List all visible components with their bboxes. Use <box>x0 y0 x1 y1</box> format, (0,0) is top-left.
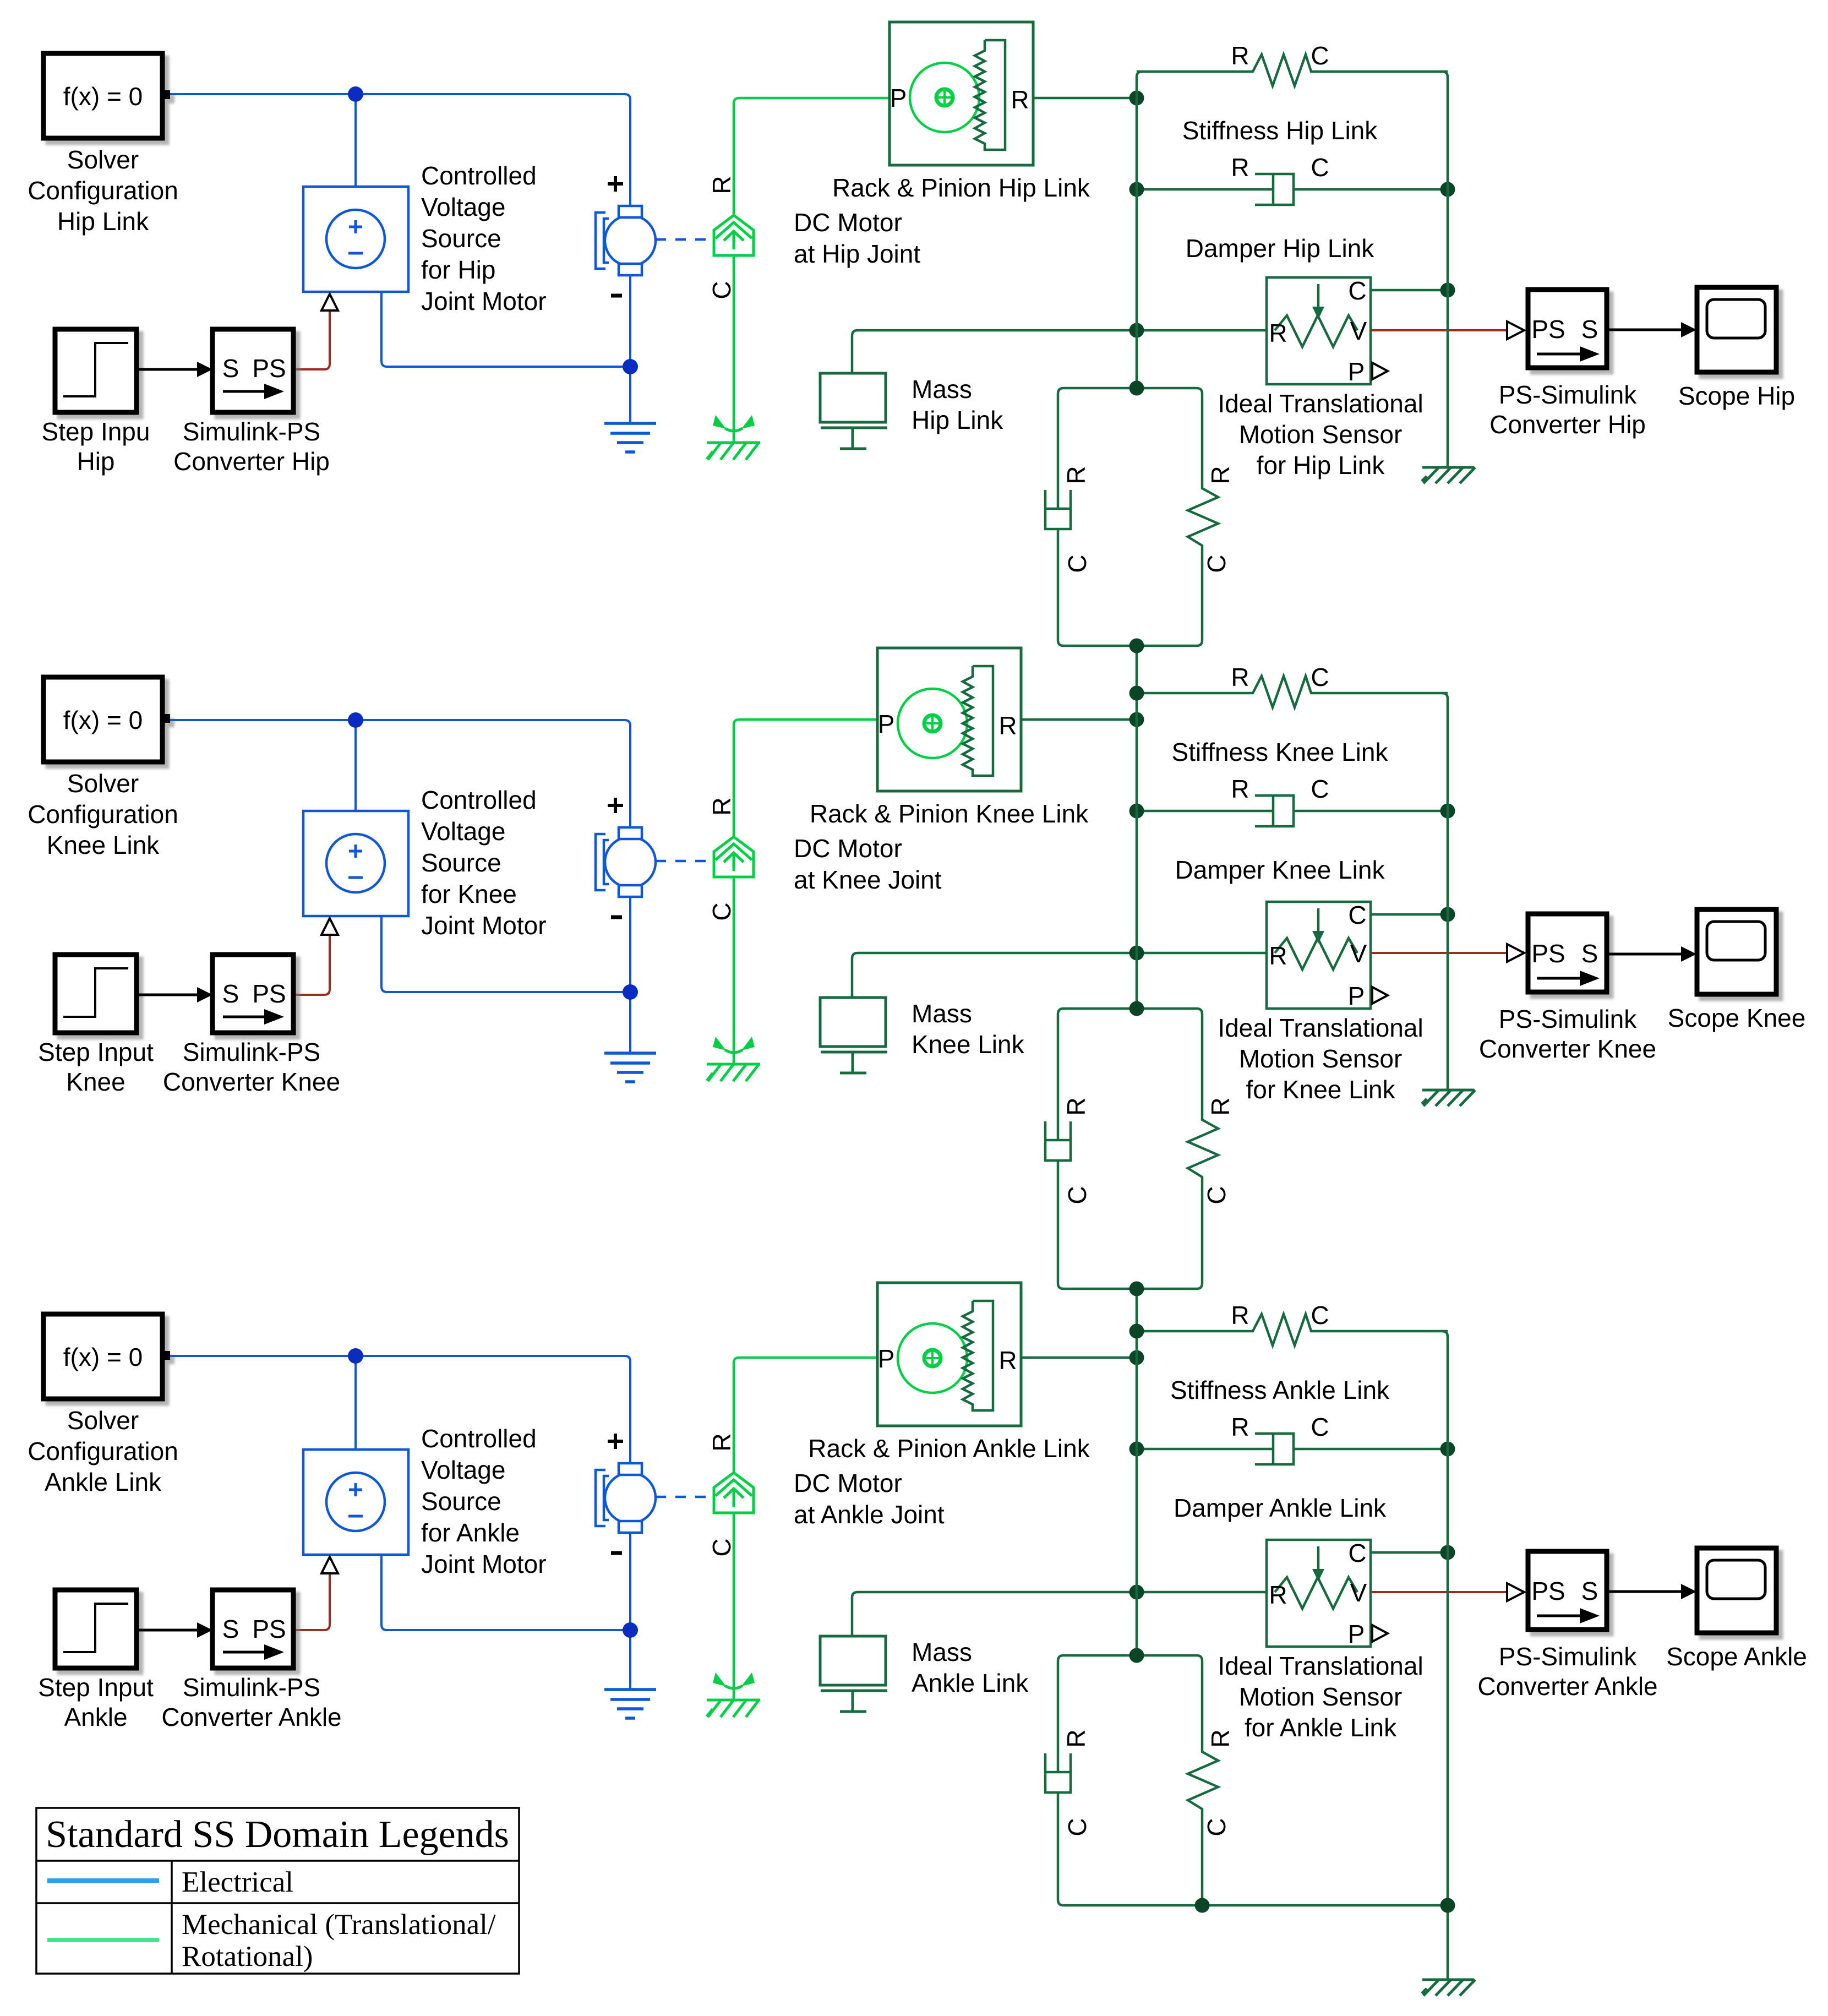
wire: wheel R up to rack pinion P (Ankle) <box>734 1358 877 1472</box>
wire: PS control signal (dark red) (Ankle) <box>293 1574 330 1630</box>
svg-text:C: C <box>1311 153 1329 182</box>
wire: step to converter (signal arrow) (Ankle) <box>137 1629 198 1632</box>
label Simulink-PS Converter (Ankle) <box>161 1673 341 1731</box>
wire: hip right bus <box>1442 72 1448 467</box>
svg-text:Ideal Translational: Ideal Translational <box>1218 1652 1423 1680</box>
rack &amp; pinion block (Hip) <box>890 22 1033 165</box>
svg-text:Stiffness Ankle Link: Stiffness Ankle Link <box>1170 1376 1390 1404</box>
coupler damper branch (knee-ankle) <box>1045 1009 1137 1289</box>
control port triangle of voltage source (Hip) <box>321 294 338 310</box>
label motor + terminal (Hip) <box>608 176 623 192</box>
svg-text:Configuration: Configuration <box>28 800 178 829</box>
svg-text:f(x) = 0: f(x) = 0 <box>63 1343 143 1371</box>
svg-text:C: C <box>1063 554 1092 573</box>
label Rack &amp; Pinion (Knee) <box>794 799 1089 894</box>
svg-text:C: C <box>1348 276 1366 305</box>
label motor + terminal (Ankle) <box>608 1434 623 1449</box>
svg-text:Configuration: Configuration <box>28 176 178 205</box>
damper (Ankle) <box>1137 1434 1448 1464</box>
node: damper on right bus (Ankle) <box>1440 1442 1455 1457</box>
node: sensor C on right bus (Hip) <box>1440 283 1455 298</box>
svg-text:Converter Ankle: Converter Ankle <box>1477 1672 1657 1701</box>
svg-text:for Hip: for Hip <box>421 255 495 284</box>
svg-text:Simulink-PS: Simulink-PS <box>183 1673 321 1702</box>
svg-text:R: R <box>707 176 736 194</box>
electrical ground (Hip) <box>604 423 656 452</box>
wire: source minus to bottom rail (Knee) <box>381 916 630 992</box>
svg-text:at Hip Joint: at Hip Joint <box>794 239 920 268</box>
dashed mechanical link motor to wheel (Knee) <box>656 860 711 863</box>
svg-text:PS: PS <box>1531 315 1565 344</box>
node: damper on bus (Hip) <box>1129 182 1144 197</box>
svg-text:Mechanical (Translational/: Mechanical (Translational/ <box>182 1909 496 1941</box>
svg-text:Electrical: Electrical <box>182 1866 293 1898</box>
solver configuration block f(x)=0 (Ankle) <box>43 1314 170 1399</box>
svg-text:Hip Link: Hip Link <box>912 406 1003 434</box>
svg-text:Ideal Translational: Ideal Translational <box>1218 389 1423 418</box>
mechanical translational ground (ankle bottom) <box>1422 1980 1475 1996</box>
wire: solver/source/motor top rail (Knee) <box>170 720 630 827</box>
legend table Standard SS Domain Legends <box>36 1808 519 1974</box>
svg-text:PS-Simulink: PS-Simulink <box>1499 1005 1638 1033</box>
svg-text:Converter Hip: Converter Hip <box>173 447 330 476</box>
electrical ground (Ankle) <box>604 1690 656 1718</box>
svg-text:Controlled: Controlled <box>421 1424 537 1453</box>
svg-text:R: R <box>1062 1729 1090 1747</box>
coupler damper branch (ankle-ground) <box>1045 1655 1448 1905</box>
label Step Input (Ankle) <box>38 1673 154 1731</box>
wire: wheel R up to rack pinion P (Knee) <box>734 720 877 836</box>
control port triangle of voltage source (Ankle) <box>321 1557 338 1573</box>
svg-text:Mass: Mass <box>912 999 972 1028</box>
svg-text:C: C <box>1063 1186 1092 1204</box>
svg-text:Solver: Solver <box>67 769 139 798</box>
svg-text:for Ankle Link: for Ankle Link <box>1245 1713 1397 1742</box>
mechanical rotational reference ground (Hip) <box>707 415 760 460</box>
stiffness spring (Hip) <box>1137 55 1448 86</box>
legend mechanical line <box>47 1938 159 1942</box>
svg-text:Solver: Solver <box>67 145 139 174</box>
svg-text:Controlled: Controlled <box>421 786 537 814</box>
svg-text:C: C <box>1063 1818 1092 1836</box>
svg-text:R: R <box>707 797 736 815</box>
node: ankle bottom spring junction <box>1195 1898 1210 1913</box>
wire: mass to sensor horizontal (Hip) <box>852 330 1267 373</box>
svg-text:R: R <box>1206 466 1235 484</box>
svg-text:Solver: Solver <box>67 1406 139 1435</box>
coupler damper branch (hip-knee) <box>1045 388 1137 646</box>
ideal translational motion sensor block (Knee) <box>1267 901 1388 1010</box>
step input block (Knee) <box>55 955 137 1033</box>
label Simulink-PS Converter (Hip) <box>173 417 330 476</box>
electrical ground (Knee) <box>604 1053 656 1082</box>
label Controlled Voltage Source (Knee) <box>421 786 547 940</box>
input port triangle of PS-Simulink (Knee) <box>1507 944 1524 962</box>
coupler spring branch (knee-ankle) <box>1137 1009 1218 1289</box>
svg-text:P: P <box>1348 357 1365 386</box>
svg-text:R: R <box>1231 663 1249 691</box>
svg-text:C: C <box>1311 1301 1329 1330</box>
svg-text:C: C <box>1202 554 1231 573</box>
svg-text:S: S <box>222 354 239 383</box>
svg-text:Voltage: Voltage <box>421 817 505 846</box>
svg-text:S: S <box>1581 1577 1598 1605</box>
svg-text:Voltage: Voltage <box>421 193 505 221</box>
node: damper on bus (Ankle) <box>1129 1442 1144 1457</box>
node: bottom rail junction (Knee) <box>623 984 638 1000</box>
svg-text:R: R <box>707 1433 736 1451</box>
svg-text:R: R <box>1011 85 1029 114</box>
wire: source minus to bottom rail (Hip) <box>381 292 630 367</box>
wire: step to converter (signal arrow) (Hip) <box>137 368 198 371</box>
label Solver Configuration Hip Link <box>28 145 178 236</box>
svg-text:Motion Sensor: Motion Sensor <box>1239 1682 1403 1711</box>
legend electrical line <box>47 1878 159 1883</box>
mechanical rotational reference ground (Knee) <box>707 1037 760 1081</box>
svg-text:R: R <box>1269 1581 1287 1609</box>
svg-text:R: R <box>1231 775 1249 803</box>
node: bottom rail junction (Ankle) <box>623 1622 638 1638</box>
svg-text:C: C <box>1311 663 1329 691</box>
svg-text:R: R <box>1231 1413 1249 1441</box>
svg-text:Motion Sensor: Motion Sensor <box>1239 420 1403 449</box>
svg-text:R: R <box>1062 466 1090 484</box>
stiffness spring (Ankle) <box>1137 1314 1448 1345</box>
label Ideal Translational Motion Sensor (Knee) <box>1218 1014 1423 1104</box>
node: sensor C on right bus (Knee) <box>1440 907 1455 922</box>
node: damper on right bus (Hip) <box>1440 182 1455 197</box>
wire: branch down to voltage source + (Knee) <box>354 720 357 811</box>
svg-text:P: P <box>1348 982 1365 1010</box>
svg-text:P: P <box>878 710 895 738</box>
node: sensor C on right bus (Ankle) <box>1440 1545 1455 1560</box>
damper (Knee) <box>1137 795 1448 826</box>
svg-text:Converter Hip: Converter Hip <box>1489 410 1646 439</box>
wire: PS-Simulink to scope (signal arrow) (Hip) <box>1607 329 1682 331</box>
svg-text:at Ankle Joint: at Ankle Joint <box>794 1500 945 1529</box>
svg-text:V: V <box>1350 317 1367 345</box>
svg-text:R: R <box>1231 1301 1249 1330</box>
label motor - terminal (Ankle) <box>611 1551 622 1555</box>
svg-text:C: C <box>1202 1186 1231 1204</box>
wire: sensor C to right bus (Knee) <box>1371 913 1448 916</box>
svg-text:Damper Knee Link: Damper Knee Link <box>1175 856 1385 884</box>
node: top rail junction (Ankle) <box>348 1348 363 1364</box>
wire: branch down to voltage source + (Ankle) <box>354 1356 357 1450</box>
svg-text:Joint Motor: Joint Motor <box>421 911 547 940</box>
wire: wheel C down to rotational reference (Hip) <box>733 255 735 443</box>
svg-text:Simulink-PS: Simulink-PS <box>183 417 321 446</box>
svg-text:Step Input: Step Input <box>38 1038 154 1066</box>
mass block (Knee) <box>820 998 887 1073</box>
damper (Hip) <box>1137 174 1448 205</box>
wire: hip main bus <box>1137 72 1142 388</box>
input port triangle of PS-Simulink (Ankle) <box>1507 1583 1524 1601</box>
node: R port on bus (Ankle) <box>1129 1350 1144 1365</box>
scope block (Hip) <box>1697 287 1776 372</box>
svg-text:R: R <box>1206 1729 1235 1747</box>
label motor - terminal (Hip) <box>611 294 622 298</box>
svg-text:f(x) = 0: f(x) = 0 <box>63 706 143 734</box>
PS-Simulink converter block (Ankle) <box>1528 1551 1607 1630</box>
svg-text:S: S <box>1581 939 1598 968</box>
mass block (Hip) <box>820 373 887 449</box>
svg-text:Converter Knee: Converter Knee <box>163 1067 340 1096</box>
simulink-PS converter block (Hip) <box>212 329 293 412</box>
svg-text:V: V <box>1350 1578 1367 1607</box>
PS-Simulink converter block (Knee) <box>1528 914 1607 992</box>
svg-text:PS-Simulink: PS-Simulink <box>1499 380 1638 409</box>
wire: motor minus down to ground (Knee) <box>629 896 631 1053</box>
label Mass (Hip) <box>912 375 1003 434</box>
wire: PS-Simulink to scope (signal arrow) (Knee) <box>1607 953 1682 956</box>
node: ankle stiffness on bus <box>1129 1324 1144 1339</box>
svg-text:Rotational): Rotational) <box>182 1941 313 1973</box>
wire: rack R port to main node (Ankle) <box>1021 1356 1137 1359</box>
svg-text:R: R <box>1269 319 1287 347</box>
wire: sensor V signal (dark red) to PS-Simulink (Hip) <box>1371 329 1507 331</box>
svg-text:V: V <box>1350 939 1367 968</box>
svg-text:Damper Hip Link: Damper Hip Link <box>1186 234 1375 263</box>
rack &amp; pinion block (Ankle) <box>877 1283 1021 1426</box>
DC motor (Ankle) <box>596 1463 656 1533</box>
svg-text:Ideal Translational: Ideal Translational <box>1218 1014 1423 1042</box>
controlled voltage source block (Hip) <box>303 187 408 292</box>
svg-text:C: C <box>707 1538 736 1556</box>
mechanical rotational reference ground (Ankle) <box>707 1672 760 1717</box>
svg-text:for Ankle: for Ankle <box>421 1518 520 1547</box>
svg-text:C: C <box>1202 1818 1231 1836</box>
svg-text:P: P <box>878 1344 895 1373</box>
svg-text:Rack & Pinion Hip Link: Rack & Pinion Hip Link <box>832 173 1090 202</box>
svg-text:C: C <box>1311 1413 1329 1441</box>
label Ideal Translational Motion Sensor (Ankle) <box>1218 1652 1423 1742</box>
DC motor (Hip) <box>596 206 656 275</box>
step input block (Hip) <box>55 329 137 412</box>
svg-text:PS: PS <box>1531 939 1565 968</box>
svg-text:Mass: Mass <box>912 1638 972 1666</box>
node: mass/sensor wire on bus (Knee) <box>1129 946 1144 961</box>
node: coupler top (hip-knee) <box>1129 381 1144 396</box>
svg-text:for Knee Link: for Knee Link <box>1246 1075 1395 1104</box>
scope block (Knee) <box>1697 909 1776 994</box>
svg-text:for Hip Link: for Hip Link <box>1257 451 1385 480</box>
wire: wheel C down to rotational reference (Ankle) <box>733 1513 735 1700</box>
wire: sensor V signal (dark red) to PS-Simulink (Ankle) <box>1371 1591 1507 1593</box>
node: mass/sensor wire on bus (Hip) <box>1129 323 1144 338</box>
node: R port on bus (Hip) <box>1129 91 1144 106</box>
node: knee stiffness on bus <box>1129 686 1144 701</box>
label Ideal Translational Motion Sensor (Hip) <box>1218 389 1423 480</box>
svg-text:P: P <box>1348 1620 1365 1648</box>
wire: ankle right bus <box>1442 1331 1448 1980</box>
node: top rail junction (Hip) <box>348 86 363 102</box>
svg-text:R: R <box>998 711 1017 740</box>
svg-text:PS: PS <box>1531 1577 1565 1605</box>
svg-text:R: R <box>998 1346 1017 1375</box>
solver configuration block f(x)=0 (Hip) <box>43 53 170 138</box>
simulink-PS converter block (Knee) <box>212 955 293 1033</box>
label PS-Simulink Converter (Ankle) <box>1477 1642 1657 1701</box>
label Mass (Ankle) <box>912 1638 1029 1697</box>
svg-text:S: S <box>1581 315 1598 344</box>
label motor - terminal (Knee) <box>611 916 622 919</box>
node: ankle bottom right bus junction <box>1440 1898 1455 1913</box>
svg-text:Joint Motor: Joint Motor <box>421 287 547 315</box>
mechanical translational ground (knee right bus) <box>1422 1090 1475 1106</box>
svg-text:C: C <box>1348 1539 1366 1567</box>
svg-text:Converter Ankle: Converter Ankle <box>161 1703 341 1731</box>
svg-text:PS-Simulink: PS-Simulink <box>1499 1642 1638 1671</box>
svg-text:Hip: Hip <box>77 447 114 476</box>
svg-text:for Knee: for Knee <box>421 880 517 908</box>
label Step Input (Hip) <box>42 417 150 476</box>
svg-text:R: R <box>1062 1097 1090 1115</box>
svg-text:Knee: Knee <box>66 1067 125 1096</box>
label motor + terminal (Knee) <box>608 798 623 813</box>
svg-text:Knee Link: Knee Link <box>47 831 160 859</box>
wire: knee right bus <box>1442 693 1448 1090</box>
wire: sensor V signal (dark red) to PS-Simulink (Knee) <box>1371 952 1507 954</box>
solver configuration block f(x)=0 (Knee) <box>43 677 170 762</box>
node: top rail junction (Knee) <box>348 712 363 728</box>
svg-text:Scope Ankle: Scope Ankle <box>1666 1642 1807 1671</box>
svg-text:Joint Motor: Joint Motor <box>421 1550 547 1578</box>
dashed mechanical link motor to wheel (Ankle) <box>656 1496 711 1499</box>
svg-text:Source: Source <box>421 1487 501 1516</box>
controlled voltage source block (Ankle) <box>303 1450 408 1555</box>
wire: sensor C to right bus (Ankle) <box>1371 1551 1448 1554</box>
node: coupler bottom (hip-knee) <box>1129 639 1144 653</box>
svg-text:Ankle Link: Ankle Link <box>912 1669 1029 1697</box>
dashed mechanical link motor to wheel (Hip) <box>656 238 711 241</box>
mechanical translational ground (hip right bus) <box>1422 467 1475 483</box>
label Rack &amp; Pinion (Hip) <box>794 173 1090 268</box>
wire: PS-Simulink to scope (signal arrow) (Ankle) <box>1607 1590 1682 1593</box>
svg-text:C: C <box>1348 901 1366 929</box>
stiffness spring (Knee) <box>1137 676 1448 707</box>
svg-text:Configuration: Configuration <box>28 1437 178 1465</box>
svg-text:DC Motor: DC Motor <box>794 208 902 237</box>
wire: solver/source/motor top rail (Ankle) <box>170 1356 630 1463</box>
wire: branch down to voltage source + (Hip) <box>354 94 357 187</box>
label Solver Configuration Knee Link <box>28 769 178 859</box>
svg-text:S: S <box>222 979 239 1008</box>
svg-text:Mass: Mass <box>912 375 972 404</box>
svg-text:S: S <box>222 1615 239 1643</box>
svg-text:C: C <box>707 281 736 299</box>
ideal translational motion sensor block (Hip) <box>1267 276 1388 386</box>
svg-text:Knee Link: Knee Link <box>912 1030 1025 1059</box>
node: bottom rail junction (Hip) <box>623 359 638 374</box>
wire: mass to sensor horizontal (Knee) <box>852 953 1267 998</box>
svg-text:Stiffness Knee Link: Stiffness Knee Link <box>1172 738 1389 766</box>
svg-text:at Knee Joint: at Knee Joint <box>794 865 942 894</box>
label Simulink-PS Converter (Knee) <box>163 1038 340 1096</box>
PS-Simulink converter block (Hip) <box>1528 290 1607 368</box>
wire: wheel C down to rotational reference (Knee) <box>733 877 735 1064</box>
ideal translational motion sensor block (Ankle) <box>1267 1539 1388 1648</box>
wire: rack R port to main node (Hip) <box>1033 97 1137 100</box>
node: damper on right bus (Knee) <box>1440 804 1455 819</box>
svg-text:Ankle Link: Ankle Link <box>45 1468 162 1496</box>
svg-text:R: R <box>1269 941 1287 970</box>
svg-text:PS: PS <box>252 1615 286 1643</box>
label Controlled Voltage Source (Ankle) <box>421 1424 547 1578</box>
svg-text:Scope Hip: Scope Hip <box>1678 382 1795 410</box>
wire: motor minus down to ground (Hip) <box>629 274 631 423</box>
wire: knee main bus <box>1136 646 1138 1009</box>
wire: step to converter (signal arrow) (Knee) <box>137 994 198 996</box>
wire: ankle main bus <box>1136 1289 1138 1655</box>
wire: motor minus down to ground (Ankle) <box>629 1532 631 1690</box>
svg-text:Step Inpu: Step Inpu <box>42 417 150 446</box>
svg-text:C: C <box>1311 775 1329 803</box>
svg-text:Ankle: Ankle <box>64 1703 127 1731</box>
svg-text:R: R <box>1231 41 1249 70</box>
svg-text:Converter Knee: Converter Knee <box>1479 1034 1656 1063</box>
wire: source minus to bottom rail (Ankle) <box>381 1555 630 1630</box>
node: damper on bus (Knee) <box>1129 804 1144 819</box>
svg-text:f(x) = 0: f(x) = 0 <box>63 82 143 111</box>
label Step Input (Knee) <box>38 1038 154 1096</box>
wire: solver/source/motor top rail (Hip) <box>170 94 630 206</box>
wire: rack R port to main node (Knee) <box>1021 718 1137 721</box>
wire: mass to sensor horizontal (Ankle) <box>852 1592 1267 1636</box>
svg-text:Stiffness Hip Link: Stiffness Hip Link <box>1182 116 1378 145</box>
wheel / rotational port symbol (Ankle) <box>714 1473 754 1513</box>
svg-text:Rack & Pinion Knee Link: Rack & Pinion Knee Link <box>810 799 1089 828</box>
svg-text:Simulink-PS: Simulink-PS <box>183 1038 321 1066</box>
label PS-Simulink Converter (Knee) <box>1479 1005 1656 1063</box>
svg-text:Source: Source <box>421 848 501 877</box>
input port triangle of PS-Simulink (Hip) <box>1507 322 1524 339</box>
svg-text:R: R <box>1206 1097 1235 1115</box>
scope block (Ankle) <box>1697 1548 1776 1633</box>
coupler spring branch (hip-knee) <box>1137 388 1218 646</box>
node: coupler top (knee-ankle) <box>1129 1001 1144 1016</box>
svg-text:Damper Ankle Link: Damper Ankle Link <box>1174 1494 1387 1522</box>
svg-text:Step Input: Step Input <box>38 1673 154 1702</box>
DC motor (Knee) <box>596 827 656 897</box>
svg-text:R: R <box>1231 153 1249 182</box>
wire: sensor C to right bus (Hip) <box>1371 289 1448 292</box>
wire: wheel R up to rack pinion P (Hip) <box>734 98 890 214</box>
svg-text:Voltage: Voltage <box>421 1456 505 1484</box>
svg-text:DC Motor: DC Motor <box>794 834 902 863</box>
svg-text:Controlled: Controlled <box>421 161 537 190</box>
svg-text:PS: PS <box>252 979 286 1008</box>
wheel / rotational port symbol (Knee) <box>714 837 754 877</box>
svg-text:P: P <box>890 84 907 112</box>
svg-text:Rack & Pinion Ankle Link: Rack & Pinion Ankle Link <box>808 1434 1090 1463</box>
svg-text:Standard SS Domain Legends: Standard SS Domain Legends <box>46 1813 509 1856</box>
svg-text:Source: Source <box>421 224 501 253</box>
label Solver Configuration Ankle Link <box>28 1406 178 1496</box>
svg-text:PS: PS <box>252 354 286 383</box>
svg-text:Motion Sensor: Motion Sensor <box>1239 1044 1403 1073</box>
node: R port on bus (Knee) <box>1129 712 1144 727</box>
node: coupler top (ankle-ground) <box>1129 1648 1144 1663</box>
wire: PS control signal (dark red) (Hip) <box>293 312 330 369</box>
label PS-Simulink Converter (Hip) <box>1489 380 1646 439</box>
simulink-PS converter block (Ankle) <box>212 1590 293 1668</box>
wheel / rotational port symbol (Hip) <box>714 215 754 255</box>
step input block (Ankle) <box>55 1590 137 1668</box>
svg-text:Scope Knee: Scope Knee <box>1668 1004 1806 1032</box>
node: mass/sensor wire on bus (Ankle) <box>1129 1585 1144 1600</box>
label Rack &amp; Pinion (Ankle) <box>794 1434 1090 1529</box>
